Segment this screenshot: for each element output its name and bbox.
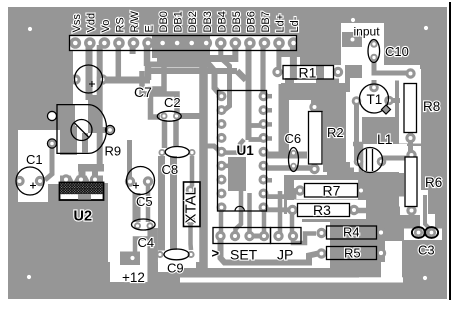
svg-text:C7: C7 xyxy=(134,84,152,100)
svg-text:C9: C9 xyxy=(167,261,184,276)
svg-text:C4: C4 xyxy=(138,235,155,250)
svg-text:C5: C5 xyxy=(136,194,153,209)
svg-text:L1: L1 xyxy=(377,131,393,147)
svg-text:input: input xyxy=(354,25,381,39)
svg-text:R/W: R/W xyxy=(129,11,141,33)
svg-text:U1: U1 xyxy=(237,143,255,158)
svg-text:Ld-: Ld- xyxy=(289,16,301,32)
svg-text:C6: C6 xyxy=(285,131,302,146)
svg-text:DB3: DB3 xyxy=(202,11,214,32)
svg-text:R3: R3 xyxy=(313,202,331,218)
svg-text:+12: +12 xyxy=(122,270,145,285)
svg-text:C10: C10 xyxy=(385,44,409,59)
svg-text:DB4: DB4 xyxy=(216,11,228,32)
svg-text:SET: SET xyxy=(230,247,258,263)
svg-text:DB0: DB0 xyxy=(158,11,170,32)
svg-text:DB5: DB5 xyxy=(231,11,243,32)
svg-text:R8: R8 xyxy=(423,99,440,114)
svg-text:XTAL: XTAL xyxy=(183,187,200,223)
svg-text:R4: R4 xyxy=(343,225,360,240)
svg-text:DB2: DB2 xyxy=(187,11,199,32)
svg-text:C2: C2 xyxy=(164,95,181,110)
svg-text:DB6: DB6 xyxy=(245,11,257,32)
svg-text:DB7: DB7 xyxy=(260,11,272,32)
svg-text:E: E xyxy=(144,25,156,32)
svg-text:R5: R5 xyxy=(344,246,361,261)
svg-text:T1: T1 xyxy=(367,92,383,107)
svg-text:R6: R6 xyxy=(425,175,442,190)
svg-text:C8: C8 xyxy=(162,162,179,177)
svg-text:C1: C1 xyxy=(26,152,43,167)
svg-text:>: > xyxy=(212,246,220,261)
svg-text:Vo: Vo xyxy=(100,20,112,33)
svg-text:U2: U2 xyxy=(74,209,93,225)
svg-text:R9: R9 xyxy=(105,144,122,159)
svg-text:JP: JP xyxy=(277,247,293,263)
svg-text:RS: RS xyxy=(114,17,126,32)
svg-text:Ld+: Ld+ xyxy=(275,14,287,33)
svg-text:Vdd: Vdd xyxy=(85,13,97,33)
svg-text:DB1: DB1 xyxy=(173,11,185,32)
svg-text:Vss: Vss xyxy=(71,14,83,33)
svg-text:R1: R1 xyxy=(299,65,317,81)
svg-text:R2: R2 xyxy=(327,125,344,140)
svg-text:R7: R7 xyxy=(323,183,341,199)
svg-text:C3: C3 xyxy=(418,243,435,258)
